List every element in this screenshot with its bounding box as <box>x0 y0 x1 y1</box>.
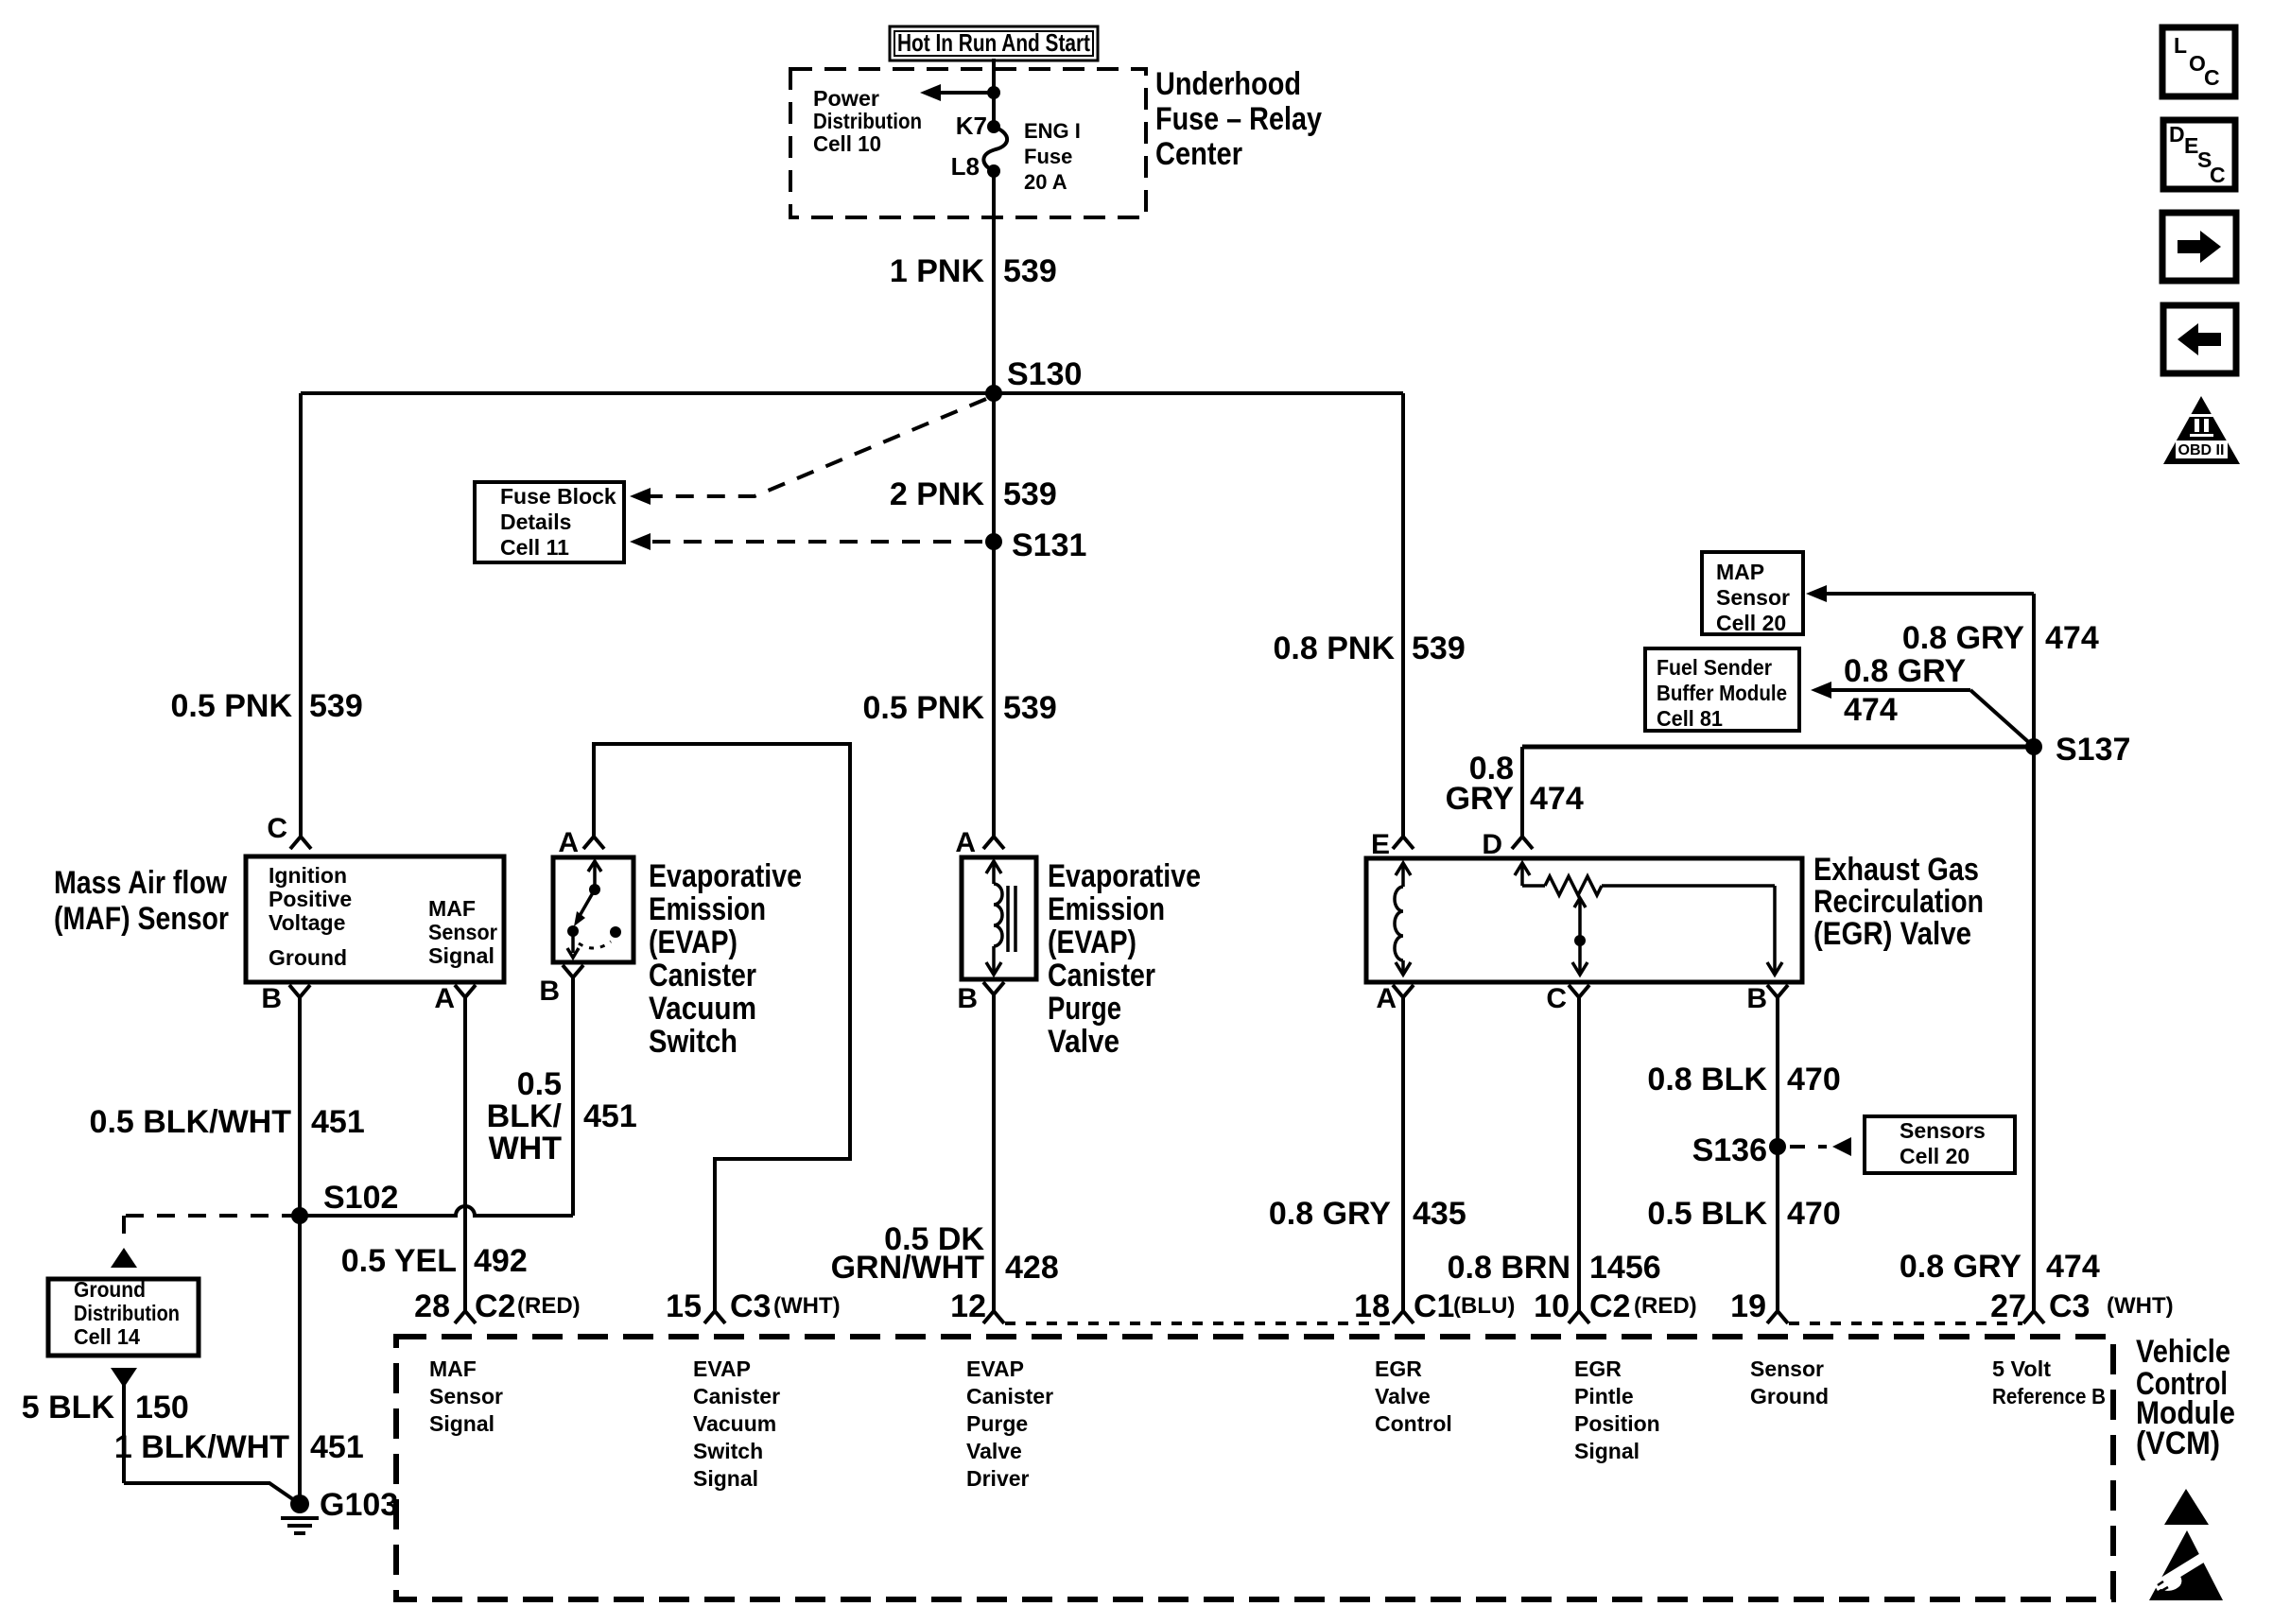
svg-text:C1: C1 <box>1414 1288 1454 1324</box>
svg-text:539: 539 <box>309 688 363 724</box>
label: Mass Air flow (MAF) Sensor <box>54 865 229 937</box>
VCM internal: 5 Volt Reference B <box>1992 1356 2106 1408</box>
label 435 <box>1413 1196 1466 1232</box>
svg-text:Cell 11: Cell 11 <box>500 535 569 560</box>
junction on feed wire <box>987 86 1000 99</box>
label 474 (pin 27) <box>2046 1249 2100 1285</box>
svg-text:OBD II: OBD II <box>2178 442 2225 458</box>
svg-text:Emission: Emission <box>649 891 766 927</box>
svg-text:Sensor: Sensor <box>429 1384 503 1408</box>
svg-text:150: 150 <box>135 1390 189 1425</box>
svg-text:A: A <box>558 827 579 858</box>
pin B of MAF <box>261 983 310 1014</box>
reference: MAP Sensor Cell 20 <box>1702 552 1803 635</box>
EVAP canister vacuum switch box <box>553 857 633 962</box>
svg-text:B: B <box>957 983 978 1014</box>
MAF sensor box <box>246 856 504 982</box>
label 539 (purge) <box>1003 690 1057 726</box>
node S137 <box>2025 732 2130 768</box>
pin C of EGR <box>1546 983 1589 1014</box>
svg-text:Valve: Valve <box>1375 1384 1431 1408</box>
value label: ENG I Fuse 20 A <box>1024 119 1081 194</box>
purge valve solenoid coil <box>986 861 1002 975</box>
svg-text:Cell 10: Cell 10 <box>813 131 881 156</box>
reference: Power Distribution Cell 10 <box>813 86 922 156</box>
svg-text:K7: K7 <box>956 112 987 140</box>
svg-text:Center: Center <box>1155 136 1242 172</box>
label 0.5 PNK <box>171 688 293 724</box>
svg-text:27: 27 <box>1990 1288 2026 1324</box>
label 539 (2 PNK) <box>1003 476 1057 512</box>
svg-text:Cell 81: Cell 81 <box>1657 706 1723 731</box>
svg-text:Sensors: Sensors <box>1900 1118 1986 1143</box>
svg-text:GRN/WHT: GRN/WHT <box>831 1250 985 1286</box>
svg-text:5 BLK: 5 BLK <box>22 1390 115 1425</box>
dashed reference from S136 to Sensors Cell 20 <box>1790 1137 1851 1156</box>
svg-text:Ground: Ground <box>1750 1384 1829 1408</box>
wire 0.5 DK GRN/WHT 428 (valve B to pin 12) <box>992 994 996 1311</box>
wire 5 BLK 150 from Ground Distribution <box>111 1368 300 1504</box>
pin 19 <box>1730 1288 1788 1324</box>
icon arrow left <box>2163 305 2236 373</box>
pin A of MAF <box>434 983 476 1014</box>
svg-text:Canister: Canister <box>693 1384 780 1408</box>
label 492 <box>474 1243 528 1279</box>
svg-text:(VCM): (VCM) <box>2136 1425 2220 1461</box>
label 0.8 GRY (fuel sender) <box>1844 653 1966 689</box>
svg-text:E: E <box>1371 829 1390 860</box>
svg-text:Exhaust Gas: Exhaust Gas <box>1813 852 1979 888</box>
svg-text:Mass Air flow: Mass Air flow <box>54 865 227 901</box>
reference: Fuel Sender Buffer Module Cell 81 <box>1645 648 1799 731</box>
EVAP canister purge valve box <box>962 857 1036 979</box>
svg-text:0.5 YEL: 0.5 YEL <box>341 1243 457 1279</box>
svg-text:0.5: 0.5 <box>517 1066 562 1102</box>
pin 28 C2 (RED) <box>414 1288 580 1324</box>
svg-text:Ignition: Ignition <box>269 863 347 888</box>
pin A of EGR <box>1376 983 1414 1014</box>
label 539 <box>1003 253 1057 289</box>
svg-text:539: 539 <box>1003 253 1057 289</box>
svg-text:451: 451 <box>310 1429 364 1465</box>
svg-text:Purge: Purge <box>1048 991 1121 1027</box>
MAF internal: Ignition Positive Voltage <box>269 863 352 935</box>
svg-text:0.8 GRY: 0.8 GRY <box>1902 620 2024 656</box>
svg-text:EVAP: EVAP <box>693 1356 751 1381</box>
svg-text:Reference B: Reference B <box>1992 1384 2106 1408</box>
wire 0.8 GRY 474 (S137 to pin 27) <box>2032 594 2036 1311</box>
pin C of MAF <box>267 813 311 849</box>
svg-text:A: A <box>955 827 976 858</box>
svg-text:0.8 PNK: 0.8 PNK <box>1274 631 1396 666</box>
svg-text:MAF: MAF <box>428 896 476 921</box>
svg-text:Driver: Driver <box>966 1466 1030 1491</box>
VCM internal: EGR Pintle Position Signal <box>1574 1356 1660 1463</box>
wire: bus right from S130 <box>994 391 1403 395</box>
label 2 PNK <box>890 476 985 512</box>
svg-text:Signal: Signal <box>428 943 495 968</box>
underhood fuse-relay center dashed box <box>790 69 1146 217</box>
svg-text:470: 470 <box>1787 1062 1841 1097</box>
svg-text:474: 474 <box>1530 781 1584 817</box>
power source label: Hot In Run And Start <box>890 26 1098 60</box>
svg-text:Evaporative: Evaporative <box>1048 858 1201 894</box>
svg-text:1456: 1456 <box>1589 1250 1661 1286</box>
label 451 (ground) <box>310 1429 364 1465</box>
svg-text:S136: S136 <box>1692 1132 1767 1168</box>
svg-text:Signal: Signal <box>429 1411 495 1436</box>
VCM internal: MAF Sensor Signal <box>429 1356 503 1436</box>
svg-text:D: D <box>2169 122 2185 147</box>
node S102 <box>291 1180 398 1224</box>
svg-text:539: 539 <box>1003 690 1057 726</box>
wire 0.5 YEL 492 (MAF A to pin 28) <box>463 997 467 1311</box>
icon LOC <box>2162 27 2235 96</box>
vacuum switch internal contacts <box>567 861 621 958</box>
svg-text:C: C <box>267 813 287 844</box>
pin B of vacuum switch <box>539 965 583 1007</box>
label 150 <box>135 1390 189 1425</box>
svg-text:Vacuum: Vacuum <box>649 991 756 1027</box>
svg-text:G103: G103 <box>320 1487 398 1523</box>
svg-text:0.5 BLK/WHT: 0.5 BLK/WHT <box>90 1104 292 1140</box>
fuse ENG I 20 A <box>983 120 1007 178</box>
svg-text:Purge: Purge <box>966 1411 1028 1436</box>
label 1 PNK <box>890 253 985 289</box>
connector dash pin12-pin18 <box>1005 1322 1392 1325</box>
svg-text:0.5 BLK: 0.5 BLK <box>1647 1196 1767 1232</box>
svg-text:474: 474 <box>2045 620 2099 656</box>
label 0.5 PNK (purge) <box>863 690 985 726</box>
label 474 (fuel sender) <box>1844 692 1898 728</box>
label 0.8 GRY (MAP) <box>1902 620 2024 656</box>
svg-text:0.8 GRY: 0.8 GRY <box>1269 1196 1391 1232</box>
svg-text:(BLU): (BLU) <box>1453 1293 1515 1319</box>
svg-text:C3: C3 <box>730 1288 771 1324</box>
label 0.8 GRY 474 (EGR D) <box>1446 751 1584 817</box>
svg-text:470: 470 <box>1787 1196 1841 1232</box>
svg-text:474: 474 <box>2046 1249 2100 1285</box>
label 451 <box>311 1104 365 1140</box>
svg-text:435: 435 <box>1413 1196 1466 1232</box>
svg-text:EGR: EGR <box>1375 1356 1422 1381</box>
icon OBD II <box>2163 396 2240 464</box>
svg-text:MAP: MAP <box>1716 560 1764 584</box>
svg-text:Buffer Module: Buffer Module <box>1657 681 1787 705</box>
label 0.8 GRY (pin 27) <box>1900 1249 2021 1285</box>
purge valve core lines <box>1008 886 1015 952</box>
svg-text:Cell 20: Cell 20 <box>1716 611 1786 635</box>
node S131 <box>985 527 1086 563</box>
svg-text:539: 539 <box>1412 631 1466 666</box>
VCM internal: EVAP Canister Purge Valve Driver <box>966 1356 1053 1491</box>
MAF internal: MAF Sensor Signal <box>428 896 497 968</box>
wire 0.5 BLK/WHT 451 (switch B to S102) <box>571 977 575 1216</box>
svg-text:Switch: Switch <box>649 1024 737 1060</box>
svg-text:D: D <box>1482 829 1502 860</box>
vehicle control module dashed box <box>396 1337 2113 1599</box>
label 0.5 BLK/ WHT (stacked) <box>487 1066 563 1166</box>
svg-text:Fuel Sender: Fuel Sender <box>1657 655 1772 680</box>
svg-text:(RED): (RED) <box>517 1293 581 1319</box>
label: Exhaust Gas Recirculation (EGR) Valve <box>1813 852 1984 952</box>
svg-text:15: 15 <box>666 1288 702 1324</box>
pin A of vacuum switch <box>558 827 604 858</box>
pin 12 <box>950 1288 1004 1324</box>
svg-text:GRY: GRY <box>1446 781 1515 817</box>
wire 0.8 BRN 1456 (EGR C to pin 10) <box>1577 997 1581 1311</box>
svg-text:Canister: Canister <box>649 958 756 993</box>
wire 2 PNK 539 (S130 to S131) <box>992 393 996 542</box>
svg-text:Fuse – Relay: Fuse – Relay <box>1155 101 1322 137</box>
svg-text:MAF: MAF <box>429 1356 477 1381</box>
node S130 <box>985 356 1082 402</box>
EGR solenoid coil <box>1395 863 1411 975</box>
svg-text:C3: C3 <box>2049 1288 2090 1324</box>
wire MAF B ground run (S102 to G103) <box>298 1216 302 1504</box>
svg-text:Details: Details <box>500 510 571 534</box>
label 470 (0.5 BLK) <box>1787 1196 1841 1232</box>
svg-text:S131: S131 <box>1012 527 1086 563</box>
svg-text:Control: Control <box>1375 1411 1452 1436</box>
svg-text:492: 492 <box>474 1243 528 1279</box>
wire: vacuum switch A to pin 15 (riser path) <box>594 744 850 1311</box>
svg-text:Distribution: Distribution <box>74 1301 180 1325</box>
pin L8 <box>951 152 980 181</box>
label 1 BLK/WHT <box>114 1429 289 1465</box>
svg-text:1 BLK/WHT: 1 BLK/WHT <box>114 1429 289 1465</box>
label 5 BLK <box>22 1390 115 1425</box>
reference: Ground Distribution Cell 14 <box>48 1277 199 1356</box>
wire 1 PNK 539 <box>992 171 996 393</box>
pin 10 C2 (RED) <box>1534 1288 1696 1324</box>
svg-text:0.8 GRY: 0.8 GRY <box>1900 1249 2021 1285</box>
svg-text:Valve: Valve <box>1048 1024 1119 1060</box>
svg-text:C: C <box>2204 65 2220 90</box>
reference: Sensors Cell 20 <box>1865 1116 2015 1173</box>
svg-text:0.5 PNK: 0.5 PNK <box>171 688 293 724</box>
svg-text:28: 28 <box>414 1288 450 1324</box>
svg-text:C: C <box>2210 163 2226 187</box>
pin D of EGR <box>1482 829 1533 860</box>
arrow to Power Distribution <box>920 84 994 101</box>
label: Evaporative Emission (EVAP) Canister Vacuum Switch <box>649 858 802 1060</box>
svg-text:BLK/: BLK/ <box>487 1098 563 1134</box>
icon arrow right <box>2162 213 2236 281</box>
MAF internal: Ground <box>269 945 347 970</box>
label 0.5 BLK/WHT <box>90 1104 292 1140</box>
svg-text:2 PNK: 2 PNK <box>890 476 985 512</box>
wire: bus left from S130 <box>301 391 994 395</box>
ESD warning symbol <box>2149 1489 2223 1600</box>
svg-text:0.8 BLK: 0.8 BLK <box>1647 1062 1767 1097</box>
svg-text:(WHT): (WHT) <box>2107 1293 2174 1319</box>
label 0.8 BRN <box>1448 1250 1570 1286</box>
wire to MAP Sensor with arrow <box>1806 585 2034 602</box>
svg-text:(EGR) Valve: (EGR) Valve <box>1813 916 1971 952</box>
ground G103 <box>281 1487 398 1533</box>
svg-text:Canister: Canister <box>966 1384 1053 1408</box>
pin 18 C1 (BLU) <box>1354 1288 1515 1324</box>
svg-text:474: 474 <box>1844 692 1898 728</box>
svg-text:Fuse: Fuse <box>1024 145 1072 168</box>
svg-text:WHT: WHT <box>489 1131 563 1166</box>
dashed reference from S131 to Fuse Block Details <box>630 533 982 550</box>
pin K7 <box>956 112 987 140</box>
svg-text:(EVAP): (EVAP) <box>1048 924 1136 960</box>
label 0.8 GRY (435) <box>1269 1196 1391 1232</box>
label: Vehicle Control Module (VCM) <box>2136 1334 2235 1461</box>
label 0.8 PNK <box>1274 631 1396 666</box>
svg-text:451: 451 <box>583 1098 637 1134</box>
wire 0.8 PNK 539 (to EGR E) <box>1401 393 1405 837</box>
svg-text:B: B <box>261 983 282 1014</box>
svg-text:Valve: Valve <box>966 1439 1022 1463</box>
svg-text:(EVAP): (EVAP) <box>649 924 737 960</box>
svg-text:Positive: Positive <box>269 887 352 911</box>
wire 0.5 PNK 539 (S131 to purge valve A) <box>992 542 996 837</box>
svg-text:S137: S137 <box>2056 732 2130 768</box>
pin 27 C3 (WHT) <box>1990 1288 2173 1324</box>
pin B of purge valve <box>957 982 1004 1014</box>
label: Underhood Fuse - Relay Center <box>1155 66 1322 172</box>
svg-text:(MAF) Sensor: (MAF) Sensor <box>54 901 229 937</box>
svg-text:12: 12 <box>950 1288 986 1324</box>
label 0.5 YEL <box>341 1243 457 1279</box>
svg-text:B: B <box>1746 983 1767 1014</box>
svg-text:Canister: Canister <box>1048 958 1155 993</box>
svg-text:Switch: Switch <box>693 1439 763 1463</box>
svg-text:1 PNK: 1 PNK <box>890 253 985 289</box>
svg-text:ENG I: ENG I <box>1024 119 1081 143</box>
svg-text:20 A: 20 A <box>1024 170 1067 194</box>
pin A of purge valve <box>955 827 1004 858</box>
dashed reference from S130 to Fuse Block Details <box>630 399 986 505</box>
label 0.5 DK GRN/WHT <box>831 1221 985 1286</box>
svg-text:Ground: Ground <box>269 945 347 970</box>
svg-text:C: C <box>1546 983 1567 1014</box>
svg-text:Cell 20: Cell 20 <box>1900 1144 1969 1168</box>
dashed reference from S102 to Ground Distribution <box>111 1216 300 1268</box>
VCM internal: EVAP Canister Vacuum Switch Signal <box>693 1356 780 1491</box>
reference: Fuse Block Details Cell 11 <box>475 482 624 562</box>
svg-text:B: B <box>539 976 560 1007</box>
node S136 <box>1692 1132 1786 1168</box>
EGR pintle potentiometer <box>1515 863 1782 975</box>
svg-text:Vacuum: Vacuum <box>693 1411 776 1436</box>
VCM internal: EGR Valve Control <box>1375 1356 1452 1436</box>
svg-text:(WHT): (WHT) <box>773 1293 841 1319</box>
svg-text:Recirculation: Recirculation <box>1813 884 1984 920</box>
svg-text:Sensor: Sensor <box>1716 585 1790 610</box>
connector dash pin19-pin27 <box>1789 1322 2022 1325</box>
pin E of EGR <box>1371 829 1414 860</box>
label 0.8 BLK <box>1647 1062 1767 1097</box>
wire S137 to EGR D <box>1522 747 2034 837</box>
pin 15 C3 (WHT) <box>666 1288 840 1324</box>
wire 0.8 GRY 435 (EGR A to pin 18) <box>1401 997 1405 1311</box>
svg-text:539: 539 <box>1003 476 1057 512</box>
svg-text:0.5 PNK: 0.5 PNK <box>863 690 985 726</box>
icon DESC <box>2163 120 2235 189</box>
svg-text:EVAP: EVAP <box>966 1356 1024 1381</box>
EGR valve box <box>1366 858 1802 982</box>
label 0.5 BLK <box>1647 1196 1767 1232</box>
svg-text:Signal: Signal <box>693 1466 758 1491</box>
svg-text:A: A <box>434 983 455 1014</box>
svg-text:S102: S102 <box>323 1180 398 1216</box>
svg-text:Ground: Ground <box>74 1277 146 1302</box>
label 470 (0.8 BLK) <box>1787 1062 1841 1097</box>
label 451 (switch B) <box>583 1098 637 1134</box>
svg-text:18: 18 <box>1354 1288 1390 1324</box>
svg-text:10: 10 <box>1534 1288 1570 1324</box>
svg-text:Evaporative: Evaporative <box>649 858 802 894</box>
svg-text:451: 451 <box>311 1104 365 1140</box>
svg-text:428: 428 <box>1005 1250 1059 1286</box>
wire 0.5 BLK/WHT 451 (MAF B to S102) <box>298 997 302 1216</box>
wire 0.5 PNK 539 (to MAF C) <box>299 393 303 837</box>
svg-text:Emission: Emission <box>1048 891 1165 927</box>
wire S102 to switch B with hop over MAF A wire <box>300 1206 573 1216</box>
pin B of EGR <box>1746 983 1788 1014</box>
svg-text:Fuse Block: Fuse Block <box>500 484 616 509</box>
svg-text:19: 19 <box>1730 1288 1766 1324</box>
svg-text:Underhood: Underhood <box>1155 66 1301 102</box>
label 539 (0.5 PNK) <box>309 688 363 724</box>
svg-text:(RED): (RED) <box>1634 1293 1697 1319</box>
svg-text:C2: C2 <box>1589 1288 1630 1324</box>
wire: feed from Hot In Run And Start into fuse <box>992 59 996 127</box>
VCM internal: Sensor Ground <box>1750 1356 1829 1408</box>
svg-text:Signal: Signal <box>1574 1439 1640 1463</box>
svg-text:C2: C2 <box>475 1288 515 1324</box>
svg-text:L8: L8 <box>951 152 980 181</box>
label: Evaporative Emission (EVAP) Canister Purge Valve <box>1048 858 1201 1060</box>
label 1456 <box>1589 1250 1661 1286</box>
svg-text:EGR: EGR <box>1574 1356 1622 1381</box>
label 428 <box>1005 1250 1059 1286</box>
svg-text:Sensor: Sensor <box>1750 1356 1824 1381</box>
label 539 (0.8 PNK) <box>1412 631 1466 666</box>
svg-text:Pintle: Pintle <box>1574 1384 1634 1408</box>
label 474 (MAP) <box>2045 620 2099 656</box>
svg-text:S130: S130 <box>1007 356 1082 392</box>
svg-text:0.8 BRN: 0.8 BRN <box>1448 1250 1570 1286</box>
svg-text:Position: Position <box>1574 1411 1660 1436</box>
svg-text:L: L <box>2174 33 2187 58</box>
svg-text:0.8 GRY: 0.8 GRY <box>1844 653 1966 689</box>
svg-text:5 Volt: 5 Volt <box>1992 1356 2051 1381</box>
svg-text:Voltage: Voltage <box>269 910 345 935</box>
svg-text:Distribution: Distribution <box>813 109 922 133</box>
svg-text:Vehicle: Vehicle <box>2136 1334 2230 1370</box>
wire to Fuel Sender Buffer Module with arrow <box>1811 682 2034 747</box>
svg-text:Hot In Run And Start: Hot In Run And Start <box>897 28 1090 57</box>
svg-text:Power: Power <box>813 86 879 111</box>
wire sensor ground (EGR B to pin 19) <box>1776 997 1779 1311</box>
svg-text:Cell 14: Cell 14 <box>74 1324 140 1349</box>
svg-text:Sensor: Sensor <box>428 920 497 944</box>
